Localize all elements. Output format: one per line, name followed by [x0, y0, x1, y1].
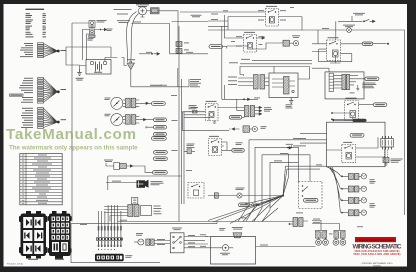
- wire conn3 stub: [146, 126, 154, 128]
- diode D1: [286, 144, 293, 149]
- wire run pair labels: [229, 59, 250, 63]
- coil label: [329, 233, 333, 236]
- wire block drop: [177, 68, 179, 87]
- wire ac feeds left: [312, 30, 327, 52]
- title block red banner: [355, 237, 396, 242]
- lamp row 1 front left: [341, 174, 366, 180]
- hourmeter label: [104, 160, 113, 162]
- scan border left: [0, 0, 4, 272]
- wire color legend title: [26, 9, 45, 10]
- gauge M1 label: [105, 98, 111, 100]
- svg-text:Printed in U.S.A.: Printed in U.S.A.: [7, 262, 24, 265]
- wire starter to horn run: [256, 246, 316, 248]
- lamp switch box S2: [299, 182, 323, 209]
- engine connector box: [325, 72, 364, 99]
- wires key switch right: [184, 237, 208, 248]
- ac pressure switch S1: [336, 16, 375, 40]
- front lights label: [370, 179, 376, 183]
- scan border top: [0, 0, 416, 4]
- pill connector CONN-7: [154, 157, 168, 161]
- pill connector CONN-8: [153, 171, 168, 175]
- wire ac relay to pill: [341, 43, 363, 45]
- lamp feed trunk: [327, 167, 342, 213]
- power port labels: [88, 20, 113, 40]
- glow plug connector stack: [244, 106, 254, 117]
- fusible link FL1: [176, 42, 189, 47]
- inline connector pair: [139, 53, 160, 56]
- pill connector CONN-5: [152, 137, 167, 141]
- ac relay K5: [327, 40, 341, 60]
- boxed label in fan group 2: [10, 94, 24, 96]
- fan relay terminal labels: [231, 36, 265, 46]
- fuel line labels right: [189, 105, 197, 109]
- harness fan group 2 labels: [19, 78, 33, 103]
- wires neutral relay: [327, 137, 386, 157]
- wires glow stack left: [218, 99, 244, 110]
- voltage regulator VR1: [269, 73, 298, 98]
- harness fan group 3 terminal boxes: [38, 108, 44, 129]
- pill connector CONN-3: [154, 125, 167, 129]
- ground frame GND: [77, 70, 82, 76]
- wires lights box left: [300, 133, 327, 143]
- pill connector CONN-1: [152, 102, 166, 106]
- wire coolant sensor left: [229, 128, 240, 130]
- engine connector ladder: [329, 73, 333, 91]
- start relay label: [266, 5, 277, 8]
- pill connector CONN-T: [365, 77, 379, 81]
- accessory pill on box top: [333, 119, 367, 122]
- amp rating labels: [274, 138, 301, 161]
- wires keyswitch to key box: [154, 241, 170, 244]
- dash harness wire labels: [98, 226, 122, 231]
- node connector fan 2: [57, 90, 60, 93]
- power to fusebox label: [117, 20, 130, 23]
- fuse block FB1 label: [28, 259, 38, 260]
- harness fan group 3 labels: [21, 108, 33, 128]
- pill connector CONN-R1: [209, 45, 223, 49]
- small sensor connector: [184, 149, 195, 154]
- wire pill to node: [373, 43, 387, 45]
- harness fan group 2 terminal boxes: [38, 78, 44, 104]
- wires forward relay left: [332, 113, 353, 119]
- fuse legend table rows: [20, 157, 62, 202]
- wires to coils: [312, 221, 339, 231]
- wire hourmeter left: [106, 163, 114, 166]
- wire conn1 link: [149, 102, 152, 104]
- fusebox text block: [190, 79, 201, 87]
- instrument cluster connector: [128, 205, 152, 217]
- ground glow plug module: [289, 98, 293, 104]
- neutral relay K7: [342, 145, 356, 163]
- header connector J1: [381, 136, 394, 150]
- scan border bottom: [0, 267, 416, 272]
- battery label: [94, 71, 102, 74]
- pill connector CONN-G: [229, 116, 242, 120]
- wire drop cluster: [109, 216, 111, 222]
- connector symbol at CONN-S: [250, 204, 260, 206]
- start relay K1: [266, 9, 279, 27]
- node connector fan 1: [57, 50, 60, 53]
- gauge M1 connector stack: [123, 98, 140, 108]
- harness fan group 1 wires: [44, 44, 58, 57]
- starter label: [127, 58, 135, 61]
- dash header pin marks: [98, 249, 115, 251]
- auxiliary relay K4: [209, 139, 222, 156]
- node connector fan 3: [57, 121, 60, 124]
- wire ac relay ground: [330, 56, 341, 63]
- key switch KS1: [170, 233, 184, 253]
- fuse F1 label: [191, 106, 198, 109]
- dash harness drops: [99, 205, 121, 238]
- engine connector wires: [334, 76, 365, 88]
- wire long run lower: [208, 29, 318, 31]
- wire into connector box: [312, 68, 329, 72]
- bulkhead connector right: [289, 218, 308, 227]
- wire ground cable: [122, 58, 128, 66]
- wire start relay left: [208, 12, 266, 26]
- coolant sensor connector: [243, 126, 257, 133]
- node dots forward relay: [331, 112, 333, 120]
- lamp row 3 rear left: [341, 198, 366, 204]
- keyswitch wire labels: [157, 239, 165, 245]
- scattered wire labels: [80, 10, 363, 246]
- wire power port branch: [82, 30, 89, 61]
- injector coil L2: [316, 230, 327, 238]
- fuse block FB2 label: [55, 259, 64, 260]
- pill connector CONN-2: [154, 118, 167, 122]
- alternator label: [136, 4, 149, 7]
- engine connector hatched pair: [342, 74, 350, 89]
- gauge M2 label: [105, 114, 111, 116]
- section divider wires: [71, 222, 293, 224]
- wire sender drop: [177, 31, 179, 54]
- wire runs from relays: [222, 140, 271, 210]
- wire fan up drop: [288, 154, 290, 178]
- fuse F1: [193, 110, 198, 113]
- fan relay K2: [244, 35, 257, 53]
- wire alternator to battery curve 2: [127, 12, 137, 63]
- wire hourmeter to pill: [133, 166, 153, 172]
- engine outline box: [211, 237, 256, 265]
- wire to backup alarm: [106, 182, 137, 184]
- forward relay label: [346, 97, 357, 100]
- wire aux relay to pill: [222, 142, 232, 150]
- backup alarm BA1: [137, 180, 149, 188]
- fuel pump label: [292, 35, 300, 37]
- dash header tails: [98, 241, 122, 247]
- gauge M1 temperature: [111, 97, 123, 109]
- harness fan node: [282, 194, 284, 196]
- ground cable label: [150, 84, 162, 87]
- wire bus to power port: [72, 22, 89, 24]
- wire feeds into start circuit: [172, 12, 209, 22]
- wire ac relay loop: [319, 49, 352, 62]
- node dot ac: [387, 43, 389, 45]
- wire gauge M2 to conn: [139, 118, 146, 120]
- fusible link F0: [151, 8, 160, 14]
- alternator G1: [139, 7, 147, 17]
- connector pair symbol: [95, 28, 107, 30]
- wire engine block ground run: [131, 70, 189, 87]
- wire starter feed: [202, 237, 219, 248]
- wires header down dashed: [385, 150, 388, 158]
- wire long mid horizontal: [108, 176, 182, 190]
- wire fuel runs: [182, 112, 206, 115]
- pill connector in lights box: [350, 133, 364, 137]
- glow plug feed labels: [228, 77, 237, 85]
- fuse block connector FB1: [19, 211, 48, 259]
- pill in lamp switch box: [304, 199, 319, 203]
- wire regulator top loop: [240, 67, 274, 77]
- pill connector CONN-AC: [362, 42, 373, 45]
- coolant sensor label: [261, 126, 267, 128]
- auxiliary relay label: [209, 135, 219, 138]
- starter motor label: [220, 253, 230, 255]
- backup alarm wire label: [112, 180, 121, 183]
- glow plug relay K3: [206, 104, 219, 121]
- oil pressure label: [236, 188, 245, 190]
- pill connector CONN-F: [373, 103, 387, 107]
- wire pill glow: [242, 116, 245, 118]
- harness fan group 1 labels: [20, 43, 33, 57]
- wire fan runs right: [286, 166, 327, 169]
- deluxe panel label: [125, 255, 132, 257]
- long wire runs to right: [249, 140, 327, 182]
- fuse legend table divider: [25, 154, 27, 205]
- ac relay label: [328, 36, 339, 39]
- wire fuse feed: [184, 112, 209, 121]
- svg-text:TakeManual.com: TakeManual.com: [6, 126, 136, 143]
- battery B1: [86, 60, 111, 75]
- ac compressor label: [343, 25, 355, 27]
- traction lock label: [187, 144, 195, 148]
- fuse block connector FB2: [48, 211, 72, 259]
- oil pressure switch S3: [208, 193, 242, 198]
- wire fan relay left: [224, 15, 247, 49]
- fuel sender label: [191, 15, 202, 17]
- keyswitch lamp I1: [134, 239, 144, 245]
- wire run pair mid: [240, 60, 312, 64]
- harness fan group 3 wires: [44, 108, 58, 127]
- starter solenoid symbol: [233, 233, 242, 238]
- dash header connector bar: [96, 237, 122, 240]
- vertical power bus wire: [71, 23, 73, 222]
- hourmeter H1: [114, 163, 133, 170]
- injector coil L3: [334, 230, 345, 238]
- wires glow stack right: [255, 106, 262, 115]
- connector box bottom label: [350, 92, 355, 95]
- to glow plugs label: [264, 107, 272, 111]
- accessory connector A1: [383, 158, 389, 166]
- pill connector CONN-4: [154, 132, 167, 136]
- glow plug feed wires: [238, 78, 253, 86]
- pill connector CONN-6: [154, 151, 168, 155]
- fuse legend table text: [22, 155, 52, 204]
- wire alternator feed label: [114, 9, 132, 14]
- wire forward relay to pill: [358, 104, 373, 106]
- wire fan relay to pump: [257, 37, 265, 39]
- starter motor SM1: [219, 245, 233, 251]
- harness fan rays: [208, 166, 289, 223]
- diagonal feeds to bus: [243, 205, 278, 222]
- ground in connector box: [356, 85, 359, 91]
- power port connector P1: [89, 21, 95, 38]
- wire pill to relay: [223, 46, 227, 48]
- scan border right: [407, 0, 416, 272]
- harness fan group 1 terminal boxes: [38, 43, 44, 58]
- wires bulkhead to regulator: [265, 78, 269, 86]
- forward relay K6: [345, 101, 359, 121]
- gauge M2 fuel: [111, 114, 123, 126]
- lamp row 4 rear right: [341, 210, 366, 216]
- wires into instrument cluster: [104, 207, 128, 216]
- keyswitch connector pair: [146, 239, 154, 245]
- wire fusebox feed: [132, 24, 170, 53]
- injector unit 1 wheels: [316, 237, 329, 245]
- key switch label: [172, 228, 182, 231]
- small component below hourmeter: [132, 198, 138, 205]
- wire color legend right column: [43, 13, 47, 37]
- lamp row 2 front right: [341, 186, 366, 192]
- glow module ground label: [286, 104, 293, 108]
- starter wires labels: [219, 227, 243, 231]
- wire alternator to fusible link: [147, 10, 151, 12]
- svg-text:5600, (S/N A5GL11001 AND ABOVE: 5600, (S/N A5GL11001 AND ABOVE): [354, 253, 401, 256]
- fusible link FL2: [176, 49, 189, 54]
- wire gauge M1 to conn: [139, 102, 148, 104]
- wire drop diagonals to bus: [238, 205, 270, 222]
- wire branch to start circuit: [159, 11, 178, 31]
- fuse legend table frame: [20, 154, 62, 205]
- rear lights label: [370, 203, 376, 207]
- pill connector CONN-S: [239, 203, 250, 207]
- battery upper frame: [66, 47, 111, 65]
- pill connector CONN-K4: [232, 149, 245, 153]
- svg-text:6904890: 6904890: [373, 265, 382, 267]
- cab section frame: [71, 224, 160, 263]
- inline connector glow run: [243, 98, 250, 100]
- lights control box: [327, 122, 386, 167]
- neutral relay label: [343, 141, 352, 144]
- fan relay label: [244, 31, 255, 34]
- wire to fuel sender: [170, 52, 209, 54]
- ac compressor clutch L1: [318, 28, 405, 215]
- key wire labels: [188, 235, 195, 247]
- injector unit 2 wheels: [333, 237, 346, 245]
- temp module label: [362, 83, 376, 89]
- starter motor ST1: [127, 61, 135, 70]
- ground glow relay: [213, 121, 216, 124]
- vertical bus lines center: [179, 26, 184, 221]
- wire glow dashed run: [222, 26, 258, 99]
- svg-text:Preview Version Click Here: Preview Version Click Here: [357, 238, 395, 242]
- wire regulator right loop: [274, 67, 310, 80]
- accessory connector label: [391, 159, 403, 163]
- ac pressure switch label: [353, 13, 365, 15]
- deluxe panel strip: [95, 254, 124, 261]
- wire start relay loop: [228, 17, 302, 31]
- svg-text:The watermark only appears on: The watermark only appears on this sampl…: [9, 145, 138, 152]
- start relay terminal labels: [258, 7, 294, 20]
- frame ground label: [76, 78, 84, 81]
- wire battery positive up: [105, 47, 118, 61]
- wire divider drop: [117, 216, 119, 222]
- wire battery negative: [80, 66, 87, 70]
- traction lock box: [188, 183, 204, 199]
- fuel pump FP1: [283, 40, 299, 46]
- wire alternator to battery curve 1: [131, 14, 139, 61]
- instrument cluster labels: [154, 206, 162, 215]
- glow plug relay label: [206, 100, 217, 103]
- wire conn2 link: [146, 119, 153, 121]
- harness fan group 2 wires: [44, 78, 58, 102]
- wire color legend left column: [26, 13, 34, 37]
- keyswitch lamp label: [136, 233, 143, 235]
- backup alarm label: [151, 181, 164, 185]
- gauge M2 connector stack: [123, 115, 140, 125]
- wire sensor run: [182, 112, 229, 131]
- glow plug text label: [236, 142, 243, 144]
- bulkhead connector pair: [254, 75, 265, 90]
